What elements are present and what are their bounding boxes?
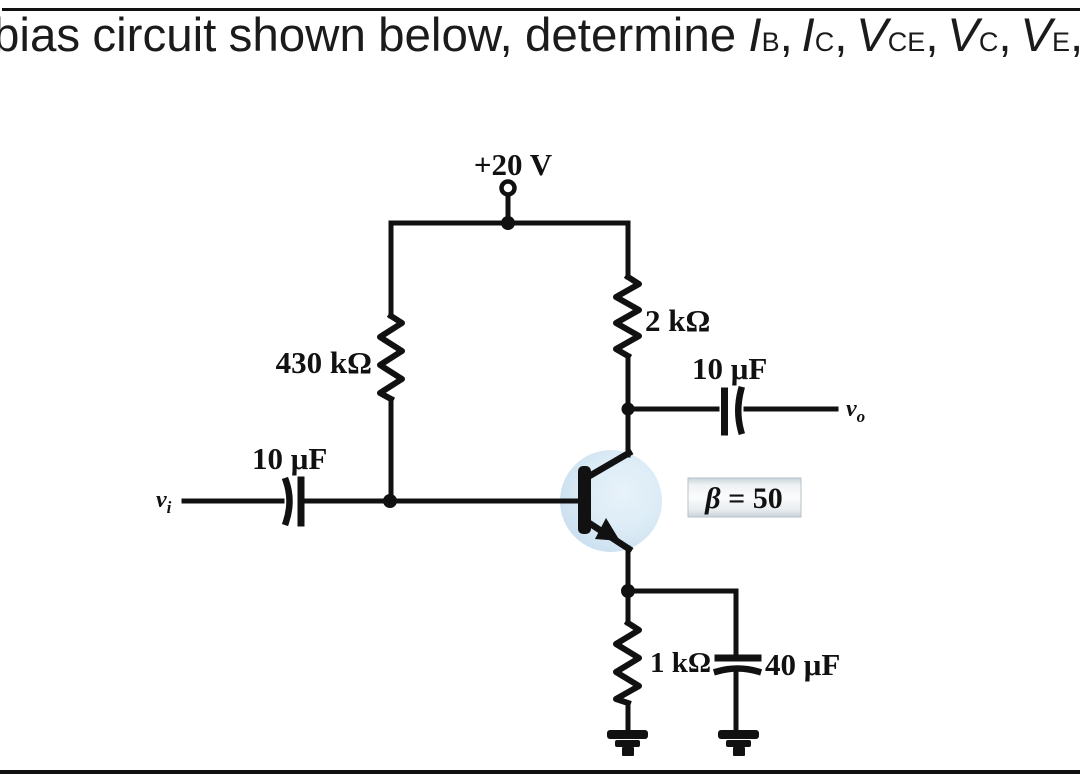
transistor Q1 body circle	[560, 450, 662, 552]
svg-text:vo: vo	[846, 396, 865, 426]
wire: output cap to vo	[746, 407, 836, 412]
svg-text:vi: vi	[156, 487, 172, 517]
wire: collector node to output cap	[628, 407, 717, 412]
wire: 1k resistor to ground	[626, 703, 631, 730]
capacitor 40 µF bottom plate	[717, 669, 758, 672]
junction dot: supply node	[501, 216, 515, 230]
capacitor output 10 µF	[725, 390, 742, 432]
svg-text:10 μF: 10 μF	[252, 441, 327, 476]
wire: bypass cap to ground	[734, 672, 739, 730]
junction dot: emitter node	[621, 584, 635, 598]
resistor 2 kΩ	[616, 277, 639, 356]
wire: supply stub	[506, 195, 511, 223]
wire: top rail	[391, 221, 628, 226]
svg-text:430 kΩ: 430 kΩ	[276, 345, 372, 380]
wire: emitter node to bypass cap	[628, 591, 736, 655]
wire: left branch lower lead	[389, 399, 394, 500]
svg-text:+20 V: +20 V	[474, 147, 553, 182]
wire: emitter vertical out of transistor	[626, 548, 631, 591]
ground: under 1k resistor	[607, 730, 648, 756]
wire: collector vertical into transistor	[626, 407, 631, 455]
ground: under bypass cap	[718, 730, 759, 756]
svg-text:40 μF: 40 μF	[765, 647, 840, 682]
wire: right branch upper lead	[626, 223, 631, 277]
wire: left branch upper lead	[389, 223, 394, 316]
capacitor 40 µF top plate	[718, 655, 758, 662]
wire: collector lead	[626, 356, 631, 409]
svg-text:β = 50: β = 50	[704, 482, 782, 515]
supply terminal circle	[502, 182, 515, 195]
svg-text:2 kΩ: 2 kΩ	[645, 303, 710, 338]
wire: vi to input cap	[184, 499, 282, 504]
capacitor input 10 µF	[286, 480, 301, 523]
transistor Q1 emitter arrow	[595, 518, 620, 541]
bottom rule	[0, 770, 1080, 774]
beta box	[688, 478, 801, 517]
transistor Q1 base bar	[578, 466, 591, 534]
junction dot: collector node	[622, 403, 635, 416]
svg-text:1 kΩ: 1 kΩ	[650, 647, 711, 679]
resistor 1 kΩ	[616, 623, 639, 703]
title text	[0, 12, 1080, 60]
top rule	[2, 8, 1080, 11]
wire: input cap to base	[305, 499, 579, 504]
transistor Q1 collector stroke	[586, 453, 629, 478]
resistor 430 kΩ	[380, 316, 402, 399]
svg-text:10 μF: 10 μF	[692, 351, 767, 386]
junction dot: base node	[383, 494, 397, 508]
transistor Q1 emitter stroke	[586, 521, 629, 549]
wire: emitter node down to 1k resistor	[626, 591, 631, 623]
